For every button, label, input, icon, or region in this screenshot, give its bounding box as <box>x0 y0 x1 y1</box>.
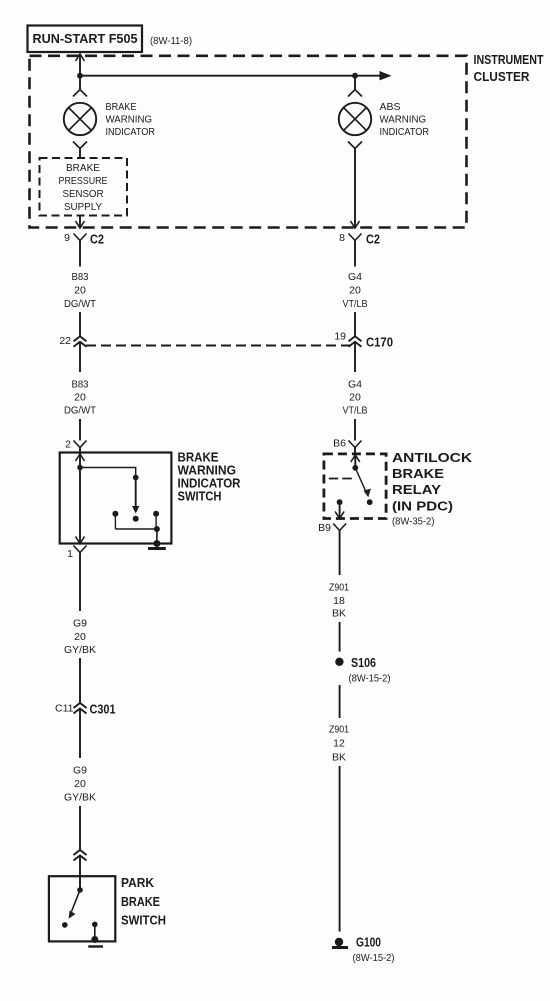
svg-text:PARK: PARK <box>121 876 154 890</box>
svg-text:C170: C170 <box>366 336 393 350</box>
relay K1 antilock brake relay dashed box <box>324 454 386 519</box>
switch S1 pivot dot <box>133 475 139 481</box>
lamp L2 abs warning indicator <box>339 76 371 149</box>
switch S1 moving contact arrow <box>132 478 139 514</box>
svg-text:Z901: Z901 <box>329 724 349 736</box>
svg-text:9: 9 <box>64 232 70 244</box>
instrument cluster dashed box <box>30 56 467 228</box>
svg-text:SUPPLY: SUPPLY <box>64 201 102 213</box>
switch S1 main vertical with border arrows <box>76 453 85 544</box>
svg-text:CLUSTER: CLUSTER <box>474 70 530 84</box>
connector pin 2 <box>74 441 87 448</box>
wire label Z901 18 BK <box>329 582 349 620</box>
wire into switch box <box>79 448 81 453</box>
svg-text:BRAKE: BRAKE <box>392 467 444 481</box>
connector pin B6 <box>349 441 362 448</box>
node junction right <box>352 73 358 79</box>
fuse box RUN-START F505 <box>28 26 143 53</box>
wire label B83 20 DG/WT upper <box>64 271 97 310</box>
switch S2 left contact dot <box>62 922 68 928</box>
svg-text:22: 22 <box>59 335 71 347</box>
svg-text:SENSOR: SENSOR <box>63 188 104 200</box>
wire below splice <box>339 685 341 718</box>
svg-text:(8W-11-8): (8W-11-8) <box>150 35 192 47</box>
svg-text:20: 20 <box>349 392 361 404</box>
wire label Z901 12 BK <box>329 724 349 764</box>
connector pin 1 <box>74 546 87 553</box>
svg-text:DG/WT: DG/WT <box>64 405 97 417</box>
svg-text:GY/BK: GY/BK <box>64 644 96 656</box>
svg-text:ABS: ABS <box>380 101 401 113</box>
connector pin B9 <box>333 524 346 531</box>
svg-text:RUN-START F505: RUN-START F505 <box>33 32 138 46</box>
svg-text:G100: G100 <box>356 936 381 950</box>
svg-text:DG/WT: DG/WT <box>64 298 97 310</box>
inline connector unnamed <box>74 850 87 876</box>
wire to switch pin 2 <box>79 419 81 441</box>
svg-text:WARNING: WARNING <box>106 114 153 126</box>
switch S1 left contact <box>112 511 118 529</box>
svg-text:Z901: Z901 <box>329 582 349 594</box>
switch S2 moving contact arrow <box>69 890 80 919</box>
svg-text:G4: G4 <box>348 271 362 283</box>
inline connector pin 22 <box>74 336 87 372</box>
svg-text:BK: BK <box>332 608 346 620</box>
svg-text:(8W-15-2): (8W-15-2) <box>349 673 391 685</box>
svg-text:(8W-15-2): (8W-15-2) <box>353 952 395 964</box>
switch S1 branch wire <box>80 468 136 478</box>
svg-text:WARNING: WARNING <box>380 114 427 126</box>
svg-text:G9: G9 <box>73 765 87 777</box>
svg-text:WARNING: WARNING <box>178 464 237 478</box>
inline connector C301 pin C11 <box>74 703 87 758</box>
switch S2 right contact <box>92 922 98 939</box>
svg-text:INDICATOR: INDICATOR <box>178 477 241 491</box>
node junction left <box>77 73 83 79</box>
svg-text:BRAKE: BRAKE <box>106 101 137 113</box>
wire lamp L1 to sensor supply box <box>79 149 81 159</box>
svg-text:20: 20 <box>349 285 361 297</box>
svg-text:B9: B9 <box>318 522 331 534</box>
svg-text:(IN PDC): (IN PDC) <box>392 500 453 514</box>
switch S1 junction dot <box>77 465 83 471</box>
wire to C301 <box>79 658 81 703</box>
svg-text:2: 2 <box>65 439 71 451</box>
wire to ground G100 <box>339 766 341 932</box>
svg-text:SWITCH: SWITCH <box>178 490 222 504</box>
svg-text:ANTILOCK: ANTILOCK <box>392 451 472 465</box>
ground G100 <box>332 938 348 948</box>
lamp L1 brake warning indicator <box>64 90 96 149</box>
svg-text:C11: C11 <box>55 703 74 715</box>
wire label G4 20 VT/LB upper <box>343 271 368 310</box>
svg-text:GY/BK: GY/BK <box>64 792 96 804</box>
svg-text:12: 12 <box>333 738 345 750</box>
relay K1 moving contact arrow <box>355 468 371 498</box>
wire sensor box to C2 pin 9 with down arrow <box>76 216 85 229</box>
svg-text:18: 18 <box>333 595 345 607</box>
dashed connector link line <box>86 345 351 347</box>
connector C2 pin 8 <box>349 234 362 267</box>
svg-text:BK: BK <box>332 752 346 764</box>
switch S2 pivot dot <box>77 887 83 893</box>
switch S1 case ground <box>148 540 166 549</box>
wire label G9 20 GY/BK lower <box>64 765 96 804</box>
svg-text:BRAKE: BRAKE <box>66 162 100 174</box>
svg-text:C2: C2 <box>90 233 104 247</box>
svg-text:20: 20 <box>74 392 86 404</box>
svg-text:B83: B83 <box>72 379 89 391</box>
relay K1 pivot dot <box>352 465 358 471</box>
svg-text:INSTRUMENT: INSTRUMENT <box>474 53 544 67</box>
svg-text:SWITCH: SWITCH <box>121 914 166 928</box>
svg-text:G4: G4 <box>348 379 362 391</box>
wire C170 to relay B6 <box>354 419 356 441</box>
wire to inline connector 19 <box>354 312 356 337</box>
switch S1 brake warning indicator switch box <box>60 453 172 544</box>
brake pressure sensor supply dashed box <box>40 158 128 216</box>
inline connector C170 pin 19 <box>349 336 362 372</box>
lamp L1 label <box>106 101 156 138</box>
ground G100 label <box>353 936 395 965</box>
wire into relay box <box>354 448 356 454</box>
switch S1 contact link wire <box>115 528 156 530</box>
switch S1 right contact <box>153 511 159 529</box>
svg-text:C2: C2 <box>366 233 380 247</box>
wire to inline connector <box>79 806 81 850</box>
wire switch to C301 <box>79 553 81 612</box>
svg-text:S106: S106 <box>351 656 376 670</box>
relay K1 input wire with up arrow <box>351 454 360 468</box>
switch S2 label <box>121 876 166 928</box>
svg-text:20: 20 <box>74 778 86 790</box>
wire label G4 20 VT/LB lower <box>343 379 368 417</box>
svg-text:1: 1 <box>67 548 73 560</box>
switch S1 wire to case ground <box>156 529 158 544</box>
relay K1 contact dot <box>367 499 373 505</box>
svg-text:BRAKE: BRAKE <box>178 451 219 465</box>
wire label B83 20 DG/WT lower <box>64 379 97 417</box>
relay K1 label <box>392 451 472 528</box>
splice S106 <box>335 658 343 666</box>
wire B9 down <box>339 531 341 576</box>
svg-text:RELAY: RELAY <box>392 483 442 497</box>
wire abs lamp to C2 pin 8 with down arrow <box>351 149 360 229</box>
connector C2 pin 9 <box>74 234 87 267</box>
svg-text:19: 19 <box>334 331 346 343</box>
lamp L2 label <box>380 101 430 138</box>
splice S106 label <box>349 656 391 685</box>
switch S1 link junction dot <box>154 526 160 532</box>
relay K1 output contact <box>335 499 344 518</box>
svg-text:VT/LB: VT/LB <box>343 405 368 417</box>
wire to inline connector 22 <box>79 312 81 337</box>
instrument cluster label <box>474 53 544 84</box>
svg-text:B83: B83 <box>72 271 89 283</box>
relay K1 coil actuate dashed line <box>329 478 353 480</box>
svg-text:INDICATOR: INDICATOR <box>380 126 430 138</box>
switch S2 input wire <box>79 876 81 890</box>
svg-text:B6: B6 <box>333 438 346 450</box>
svg-text:G9: G9 <box>73 618 87 630</box>
wire fuse to junction with up arrow <box>76 54 85 89</box>
svg-text:20: 20 <box>74 631 86 643</box>
svg-text:PRESSURE: PRESSURE <box>59 175 108 187</box>
switch S2 case ground <box>88 936 103 947</box>
switch S1 label <box>178 451 241 504</box>
wire label G9 20 GY/BK upper <box>64 618 96 657</box>
svg-text:BRAKE: BRAKE <box>121 895 160 909</box>
svg-text:VT/LB: VT/LB <box>343 298 368 310</box>
wire to splice S106 <box>339 622 341 652</box>
svg-text:(8W-35-2): (8W-35-2) <box>392 516 435 528</box>
svg-text:C301: C301 <box>90 703 116 717</box>
switch S1 center contact dot <box>133 516 139 522</box>
svg-text:20: 20 <box>74 285 86 297</box>
bus wire with right arrow <box>80 71 392 80</box>
svg-text:INDICATOR: INDICATOR <box>106 126 156 138</box>
switch S2 park brake switch box <box>49 876 115 941</box>
svg-text:8: 8 <box>339 232 345 244</box>
